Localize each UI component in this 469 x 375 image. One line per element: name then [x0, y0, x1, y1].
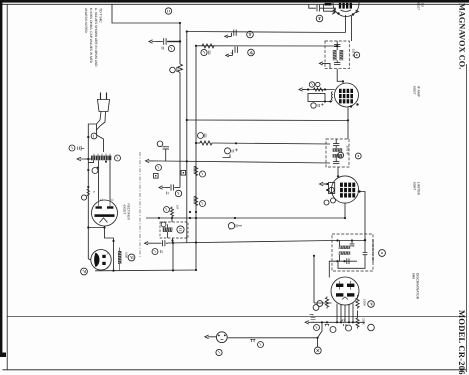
wire V2 grid line — [302, 89, 335, 91]
resistor R29 220K — [356, 317, 359, 329]
wire grid line y162 — [162, 161, 330, 163]
label circled J1 — [216, 349, 222, 355]
capacitor C9a with arrow and t under bus1 — [159, 186, 166, 189]
wire V2 cathode bottom to T2 — [347, 107, 349, 139]
label circled 20 — [324, 200, 329, 205]
svg-text:6H6: 6H6 — [412, 273, 416, 279]
node T1 top junction — [336, 45, 338, 47]
capacitor C1 grid — [316, 5, 318, 12]
border frame inner left line — [6, 4, 8, 370]
wire V4 left feed vertical — [313, 256, 315, 304]
wire T1 secondary bottom exit — [329, 63, 331, 69]
node junction bus2/y32 — [186, 30, 188, 32]
node junction bus2/y120 — [186, 119, 188, 121]
svg-text:6SJ7: 6SJ7 — [417, 3, 421, 11]
capacitor C13 cluster mid-left — [157, 141, 163, 147]
resistor R15 hum coil — [118, 251, 121, 266]
switch S1 circled label — [69, 145, 75, 151]
resistor R25 100K right of V4 — [356, 295, 359, 309]
tube V1 pin arrows — [333, 9, 336, 12]
tube V3 6SH7 envelope — [331, 176, 358, 203]
resistor R5 in bus1 — [178, 64, 183, 73]
AC plug body — [98, 100, 110, 112]
label text blob 54C — [325, 3, 332, 6]
V3 left small box — [329, 183, 335, 194]
label circled 17 — [81, 195, 86, 200]
tube V2 6SG7 envelope — [335, 83, 359, 107]
V5 plates — [95, 206, 115, 217]
svg-text:MODEL CR-206: MODEL CR-206 — [457, 310, 467, 375]
T2 bottom capacitor — [333, 161, 339, 163]
wire audio line y218 — [146, 217, 345, 219]
node junction y143 — [195, 142, 197, 144]
wire bus2 vertical — [186, 32, 188, 244]
T1 bottom capacitor — [334, 62, 340, 64]
speaker dashed box — [160, 222, 188, 238]
wires V5 cathode down — [88, 226, 113, 271]
wire bus1 vertical upper — [179, 23, 181, 64]
svg-text:DISCRIMINATOR: DISCRIMINATOR — [371, 240, 375, 263]
capacitor C26 47 — [344, 324, 346, 326]
label circled 23 — [317, 301, 323, 307]
wire V3 plate right — [358, 192, 366, 241]
wire T2 to V3 — [337, 167, 339, 177]
label circled 30 under R6 — [201, 49, 207, 55]
label circled 6b — [175, 190, 181, 196]
node label circled 4 — [248, 49, 255, 56]
resistor R5 label circled — [170, 67, 176, 73]
label circled 36 — [161, 222, 166, 227]
V4 plate stems — [340, 281, 351, 290]
svg-text:2nd IF: 2nd IF — [346, 146, 350, 156]
label circled 6 — [316, 82, 320, 86]
svg-text:K=1000 OHMS. CAP VALUES IN MFD: K=1000 OHMS. CAP VALUES IN MFD — [89, 8, 93, 64]
label circled dot T3 — [379, 250, 386, 257]
tube V2 grid block — [339, 89, 353, 104]
wires ballast pins down — [88, 160, 110, 201]
V5 cathode dome — [100, 218, 108, 223]
svg-text:6X5GT: 6X5GT — [123, 205, 127, 215]
wire V6 bottom to y271 — [100, 269, 102, 272]
resistor R21 vertical above y218 — [171, 207, 174, 219]
node label circled 40 — [198, 133, 204, 139]
switch S1 contacts — [78, 146, 85, 151]
label circled 29 — [368, 324, 375, 331]
wire V4 bottom bus y322 — [308, 321, 365, 323]
wires V4 pins down — [337, 303, 353, 322]
wire L drop x173 — [172, 243, 174, 270]
T3 inner bottom wire — [338, 261, 365, 268]
tube V5 6X5GT rectifier envelope — [92, 200, 118, 226]
label circled 16 — [81, 268, 88, 275]
arrow into V1 grid — [332, 10, 335, 14]
tube V1 pin dots — [337, 12, 339, 14]
svg-text:1st: 1st — [421, 3, 425, 7]
svg-text:RECTIFIER: RECTIFIER — [127, 204, 131, 221]
capacitor C27 — [310, 314, 316, 322]
wire diagonal to output jack X — [318, 322, 323, 347]
label circled 26 — [346, 325, 352, 331]
svg-text:100K: 100K — [193, 197, 197, 204]
transformer T1 1st IF dashed box — [325, 41, 349, 69]
border frame top bar — [0, 0, 469, 3]
resistor R4 on y143 — [200, 141, 212, 145]
wire T3 left exit down to V4 — [329, 261, 332, 277]
node junction cord — [87, 136, 89, 138]
wire plate line y143 — [196, 142, 200, 144]
junction dots bus y212 — [189, 211, 191, 213]
wire audio out y338 — [228, 337, 318, 339]
capacitor C3 with arrow on y46 — [226, 54, 233, 57]
capacitor C35 on y338 — [250, 339, 255, 342]
node bus1 top junction — [179, 22, 181, 24]
tube V1 cathode arc — [341, 10, 352, 12]
wire V4 right top — [357, 311, 359, 318]
T3 right capacitor — [363, 241, 368, 262]
label circled 27 — [314, 325, 320, 331]
arrow left end of y322 with cap — [305, 321, 309, 324]
svg-text:LIMITER: LIMITER — [417, 182, 421, 196]
label circled 35 — [258, 342, 264, 348]
svg-text:6SG7: 6SG7 — [413, 86, 417, 95]
capacitor C2 tone with arrow on y32 — [225, 35, 232, 38]
arrow ground stub left of T1 — [319, 62, 330, 65]
T3 bottom wire — [332, 260, 357, 262]
resistor R10 ballast bar — [91, 154, 111, 161]
label circled 8 — [200, 171, 206, 177]
label circled 5 — [309, 82, 314, 87]
resistor R9 in grid line — [314, 88, 324, 91]
tube V4 diode plates — [336, 284, 354, 297]
label circled dot T2 — [355, 153, 361, 159]
boxed terminal B — [181, 171, 186, 176]
chassis dash-dot line — [139, 152, 141, 258]
label circled 25 — [368, 301, 375, 308]
wire screen line y46 — [196, 45, 337, 47]
node X circled output — [314, 347, 321, 354]
op tube V1 6SJ7 envelope — [333, 0, 359, 17]
T3 top wire — [332, 240, 365, 242]
T1 top capacitor — [334, 44, 340, 46]
node label circled 2 — [316, 15, 323, 22]
label circled 28 — [330, 327, 336, 333]
svg-text:100K: 100K — [363, 299, 367, 306]
label circled 14a — [92, 168, 98, 174]
tube V3 grid block — [340, 183, 355, 198]
border frame right line — [465, 64, 467, 372]
T2 top capacitor — [333, 143, 339, 145]
svg-text:DISCRIMINATOR: DISCRIMINATOR — [416, 273, 420, 300]
T1 primary coil — [333, 50, 343, 60]
label circled 11 — [91, 133, 97, 139]
capacitor C28 — [325, 324, 330, 326]
wire V1 plate down to IFT1 — [351, 16, 353, 41]
wire V3 cathode down — [344, 204, 346, 219]
svg-text:A. VALUES SHOWN ARE IN OHMS AN: A. VALUES SHOWN ARE IN OHMS AND — [94, 8, 98, 67]
node junction bus3/y46 — [195, 45, 197, 47]
svg-text:1000: 1000 — [125, 252, 128, 258]
T3 primary coil — [339, 246, 352, 255]
border frame left black strip — [0, 0, 2, 356]
label circled 3 — [168, 45, 174, 51]
wires speaker connections — [168, 218, 173, 243]
svg-text:UNLESS NOTED: UNLESS NOTED — [84, 8, 88, 33]
label circled 19 — [331, 198, 336, 203]
svg-text:220K: 220K — [362, 318, 366, 325]
tube V4 6H6 envelope — [331, 277, 359, 305]
label circled 1 antenna — [165, 8, 171, 14]
node junction y218 right — [234, 217, 236, 219]
junction dots x88 — [87, 169, 89, 171]
transformer T3 discriminator dashed box — [332, 234, 373, 271]
border frame left notch — [0, 353, 6, 358]
T2 primary coil — [333, 148, 344, 157]
arrow left of ballast — [77, 157, 84, 161]
T3 coil stems — [339, 241, 341, 262]
AC plug prongs — [101, 93, 107, 100]
T3 trimmer cap — [350, 241, 355, 246]
transformer T2 2nd IF dashed box — [326, 139, 349, 167]
label circled 15 — [128, 254, 135, 261]
wire x88 lower — [87, 155, 89, 259]
tube V1 grid cap block — [339, 3, 352, 9]
resistor R17 small — [87, 189, 90, 196]
node label circled 2a — [247, 31, 254, 38]
wire bus3 vertical — [195, 46, 197, 271]
wire AVC line y32 — [187, 32, 346, 33]
svg-text:6SH7: 6SH7 — [413, 182, 417, 190]
wire into V6 left — [88, 258, 91, 261]
resistor R8 3000 on bus3 y170 — [194, 166, 197, 176]
T2 slug circle — [338, 152, 344, 158]
label circled 21 — [164, 207, 170, 213]
T3 bottom capacitor — [346, 258, 348, 264]
label circled dot T1 — [354, 52, 360, 58]
wire from top border down at x=112 — [112, 4, 180, 23]
T1 interior connecting wires — [336, 41, 338, 63]
wire B+ line y242 — [168, 241, 332, 244]
tube V6 ballast/regulator envelope — [91, 250, 111, 270]
V5 top pin stubs — [99, 201, 111, 206]
resistor R23 left of V4 — [325, 297, 328, 309]
svg-text:IF AMP: IF AMP — [417, 86, 421, 98]
V6 filled crescent — [94, 253, 99, 268]
arrow V2 grid left — [299, 88, 306, 91]
wire bus1 vertical lower — [179, 73, 181, 188]
capacitor C3b with arrow on bus1 y41 — [149, 40, 156, 43]
label circled 42 — [311, 103, 316, 108]
label circled 14 — [156, 165, 162, 171]
wire grid cap circuit left of V1 — [309, 4, 316, 8]
V4 cathode mark — [342, 297, 348, 300]
wire V1 cathode down to y32 — [345, 15, 347, 33]
connector J1 audio jack — [216, 332, 227, 343]
svg-text:TO T 54C: TO T 54C — [99, 8, 103, 23]
phono jack J2 — [228, 223, 234, 229]
wire T1 to V2 — [337, 69, 343, 83]
speaker circle — [177, 226, 184, 233]
svg-text:MAGNAVOX CO.: MAGNAVOX CO. — [458, 3, 467, 69]
wires V3 grid left — [323, 183, 329, 185]
border frame bottom line — [2, 369, 466, 371]
T2 interior wires — [335, 139, 337, 162]
arrow left of J1 — [205, 335, 216, 339]
AC cord — [97, 112, 104, 153]
arrow V3 grid — [320, 182, 327, 185]
label circled 9 — [200, 201, 206, 207]
svg-text:47: 47 — [342, 319, 346, 323]
coil arcs left of V2 — [331, 92, 332, 101]
border frame top thin line — [0, 3, 469, 5]
capacitor C34 with arrow on y243 — [145, 242, 152, 245]
svg-text:3000: 3000 — [193, 167, 197, 174]
speaker coil — [163, 227, 175, 232]
loop frame below grid line — [308, 94, 325, 102]
resistor R6 on y46 — [202, 44, 214, 48]
svg-text:1M: 1M — [176, 205, 180, 210]
label circled 34 — [152, 249, 158, 255]
wire heater line y120 — [187, 119, 348, 122]
border frame middle horizontal line — [7, 315, 466, 317]
boxed terminal A — [154, 174, 159, 179]
label circled 24 — [313, 305, 319, 311]
resistor R9b on bus3 y198 — [194, 196, 197, 206]
label circled 10 — [115, 155, 121, 161]
capacitor C31 on y162 area — [225, 148, 231, 154]
wire from blob down to grid arrow — [324, 4, 332, 11]
wire B+ return y270 — [95, 269, 196, 272]
V6 inner squares — [102, 255, 105, 258]
